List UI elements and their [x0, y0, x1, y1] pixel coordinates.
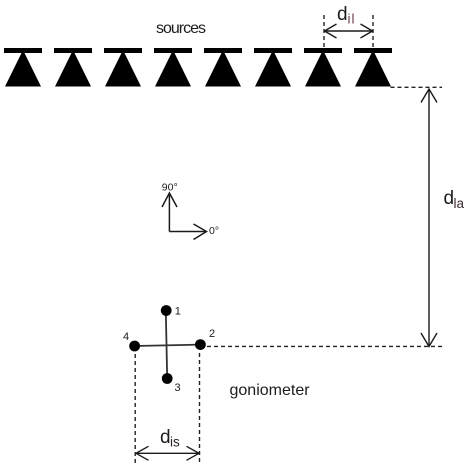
svg-text:0°: 0° — [209, 225, 219, 237]
svg-text:d: d — [160, 427, 171, 448]
svg-text:2: 2 — [209, 328, 215, 340]
svg-text:d: d — [444, 188, 455, 209]
source speaker 2 — [54, 48, 92, 87]
dashed drop line from dot 4 — [134, 354, 136, 464]
source speaker 6 — [254, 48, 292, 87]
microphone dot 3 — [162, 373, 173, 384]
d_il dashed extension line right — [372, 15, 374, 48]
dashed line from last source base to d_la arrow top — [391, 86, 443, 88]
svg-text:3: 3 — [175, 382, 181, 394]
source speaker 4 — [154, 48, 192, 87]
source speaker 8 — [354, 48, 392, 87]
axes horizontal 0 degree arrow — [169, 224, 206, 240]
svg-text:4: 4 — [123, 331, 129, 343]
microphone dot 1 — [161, 305, 172, 316]
d_is dimension arrow — [136, 446, 199, 460]
microphone dot 2 — [195, 339, 206, 350]
source speaker 7 — [304, 48, 342, 87]
svg-text:d: d — [337, 4, 348, 25]
d_il dimension arrow — [325, 24, 373, 38]
svg-text:la: la — [454, 196, 465, 211]
source speaker 5 — [204, 48, 242, 87]
axes vertical 90 degree arrow — [162, 193, 177, 232]
svg-text:is: is — [170, 435, 180, 450]
d_la vertical dimension arrow — [421, 89, 437, 347]
source speaker 1 — [4, 48, 42, 87]
svg-text:1: 1 — [175, 306, 181, 318]
svg-text:goniometer: goniometer — [230, 382, 311, 399]
microphone dot 4 — [129, 341, 140, 352]
dashed line from dot 2 to d_la arrow bottom — [207, 345, 445, 347]
goniometer cross vertical bar — [166, 311, 167, 379]
dashed drop line from dot 2 — [199, 353, 201, 464]
d_il dashed extension line left — [323, 15, 325, 48]
svg-text:il: il — [348, 12, 356, 27]
svg-text:sources: sources — [156, 20, 206, 37]
goniometer cross horizontal bar — [135, 345, 201, 346]
svg-text:90°: 90° — [162, 182, 178, 194]
source speaker 3 — [104, 48, 142, 87]
